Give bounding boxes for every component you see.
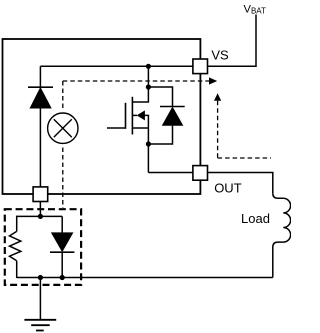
ground bar 2 [31,324,50,326]
wire: GND pin square to clamp network [39,202,41,217]
junction dot A (bus / VS rail) [146,64,151,69]
junction dot D (clamp top) [38,214,43,219]
junction dot E (gnd rail left) [38,275,43,280]
MOSFET Q1 body lead [132,114,137,116]
dashed box (external clamp) [5,209,81,285]
wire: clamp top rail [17,215,63,217]
ground bar 3 [36,330,44,332]
MOSFET Q1 body arrow [137,110,145,120]
wire: VS net main horizontal [40,65,193,67]
body diode triangle [163,108,183,126]
dashed current path vertical lower [62,148,64,209]
dashed recirculation arrow up [214,93,221,100]
resistor R1 zigzag [10,231,21,260]
body diode cathode bar [160,106,185,108]
wire: resistor top lead [16,216,18,232]
svg-text:VS: VS [211,47,229,62]
wire: clamp diode bottom lead [61,252,63,277]
wire: clamp diode top lead [61,216,63,233]
dashed current path vertical upper [62,81,64,111]
wire: body arrow to bus and bus down to OUT [145,115,149,172]
dashed recirculation horizontal [218,157,271,159]
wire: left diode anode lead down to GND pin [39,108,41,187]
dashed path arrow right [209,77,217,84]
lamp X stroke 2 [54,119,72,137]
lamp X stroke 1 [54,119,72,137]
wire: bottom return rail [17,277,273,279]
wire: load bottom corner [273,242,284,277]
wire: OUT square to load top [208,173,273,194]
wire: resistor bottom lead [16,261,18,278]
junction dot B (bus / body diode top) [146,84,151,89]
pin square GND [33,187,48,202]
wire: load top corner [273,193,284,198]
diode D2 cathode bar [50,251,74,253]
junction dot C (bus / body diode bottom) [146,141,151,146]
dashed current path horizontal [63,80,210,82]
diode D1 triangle [30,88,51,108]
junction dot F (gnd rail diode) [60,275,65,280]
wire: vertical bus upper (drain elbow to main wire) [132,66,148,102]
dashed recirculation vertical [217,101,219,158]
MOSFET Q1 gate lead [107,127,126,129]
MOSFET Q1 source lead [132,127,148,129]
MOSFET Q1 channel line [131,97,133,135]
wire: body diode top branch [148,87,172,107]
wire: left diode cathode lead [39,66,41,87]
MOSFET Q1 gate plate [125,103,127,129]
pin square VS [193,59,208,74]
lamp circle-X indicator [48,113,78,143]
wire: body diode anode lead [148,125,172,144]
pin square OUT [193,166,208,181]
diode D2 triangle (points down) [52,233,73,251]
IC outline box [3,39,201,194]
svg-text:Load: Load [241,211,270,226]
wire: VS square to VBAT corner [208,15,256,67]
svg-text:OUT: OUT [214,181,242,196]
wire: ground lead [39,278,41,320]
inductor Load coil [283,198,290,242]
ground bar 1 [24,319,56,321]
diode D1 cathode bar [28,86,53,88]
wire: OUT net inside box [148,172,193,174]
